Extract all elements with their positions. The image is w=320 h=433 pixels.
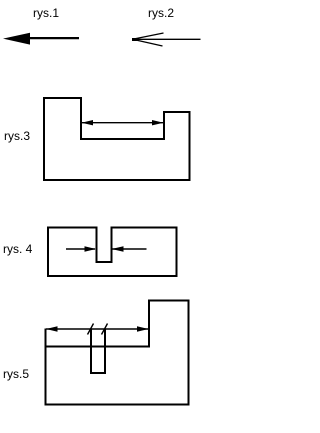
dimension arrowhead rys.3 left <box>82 120 94 125</box>
arrow rys.2 open barb upper <box>133 33 164 39</box>
tick slash rys.5 at slot left wall <box>88 324 94 335</box>
slot left wall rys.5 <box>90 329 92 373</box>
dimension arrowhead rys.3 right <box>152 120 164 125</box>
dimension line rys.4 left <box>66 248 95 250</box>
dimension arrowhead rys.5 right (points right) <box>137 326 149 331</box>
slot right wall rys.5 <box>104 329 106 373</box>
part outline rys.4 (block with narrow top slot) <box>48 228 177 277</box>
dimension arrowhead rys.4 right (points left) <box>112 246 124 251</box>
part outline rys.3 (block with top notch) <box>44 98 190 180</box>
arrow rys.2 tip blob <box>132 38 139 41</box>
svg-text:rys.2: rys.2 <box>148 6 174 20</box>
tick slash rys.5 at slot right wall <box>102 324 108 335</box>
svg-text:rys.1: rys.1 <box>33 6 59 20</box>
dimension line rys.3 <box>82 122 163 124</box>
dimension line rys.4 right <box>112 248 147 250</box>
dimension arrowhead rys.5 left (points left) <box>46 326 58 331</box>
part outline rys.5 (stepped block) <box>46 301 189 405</box>
arrow rys.1 filled arrowhead <box>3 33 30 45</box>
svg-text:rys.3: rys.3 <box>4 129 30 143</box>
arrow rys.2 open barb lower <box>133 39 163 46</box>
slot bottom rys.5 <box>90 372 106 374</box>
arrow rys.2 open leader line <box>132 38 201 40</box>
svg-text:rys. 4: rys. 4 <box>3 242 33 256</box>
dimension arrowhead rys.4 left (points right) <box>85 246 97 251</box>
svg-text:rys.5: rys.5 <box>3 367 29 381</box>
arrow rys.1 filled leader line <box>28 37 79 39</box>
dimension line rys.5 <box>46 328 148 330</box>
